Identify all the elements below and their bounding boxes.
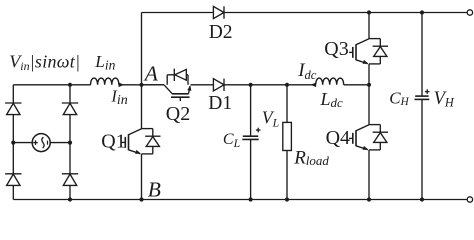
wire Ldc to Q leg — [344, 84, 369, 86]
wire bridge left leg lower — [12, 185, 14, 199]
node B — [139, 197, 143, 201]
svg-text:Vin|sinωt|: Vin|sinωt| — [9, 51, 80, 73]
wire CH upper — [421, 13, 423, 97]
svg-text:Rload: Rload — [293, 148, 329, 169]
wire D1 to Ldc — [224, 84, 316, 86]
wire Q2 to D1 — [191, 84, 214, 86]
wire bridge right leg lower — [69, 185, 71, 199]
wire bridge right leg upper — [69, 85, 71, 103]
node Rload top junction — [285, 83, 289, 87]
svg-text:Q2: Q2 — [166, 103, 190, 125]
node CL bottom junction — [249, 197, 253, 201]
svg-text:Q1: Q1 — [101, 131, 125, 153]
transistor Q4 — [356, 125, 369, 131]
diode D2 — [223, 6, 225, 18]
current arrow Idc — [311, 83, 317, 88]
wire top of bridge — [13, 84, 90, 86]
svg-text:VL: VL — [262, 107, 279, 129]
transistor Q2 — [164, 85, 172, 94]
wire node A up to top rail — [141, 13, 143, 85]
svg-text:A: A — [143, 61, 159, 85]
node bridge bottom-right junction — [68, 197, 72, 201]
wire bridge left leg upper — [12, 85, 14, 103]
node CH bottom junction — [420, 197, 424, 201]
wire AC source left — [13, 142, 32, 144]
svg-text:Q4: Q4 — [326, 127, 350, 149]
capacitor CH — [415, 95, 428, 97]
wire Lin to node A — [119, 84, 164, 86]
node Rload bottom junction — [285, 197, 289, 201]
node bottom rail Q4 junction — [367, 197, 371, 201]
diode bridge lower-left — [5, 173, 21, 175]
svg-text:Ldc: Ldc — [320, 89, 344, 110]
terminal top right — [467, 10, 472, 15]
wire Rload upper — [286, 85, 288, 123]
node CL top junction — [249, 83, 253, 87]
wire CH lower — [421, 99, 423, 199]
svg-text:Idc: Idc — [297, 60, 317, 82]
wire Q3 to Q4 — [368, 64, 370, 125]
capacitor CL — [243, 135, 258, 137]
node AC left junction — [11, 141, 15, 145]
wire bridge right leg middle — [69, 115, 71, 174]
node bridge top-right junction — [68, 83, 72, 87]
transistor Q3 — [356, 39, 369, 45]
wire top rail to Q3 — [368, 13, 370, 39]
wire bridge left leg middle — [12, 115, 14, 174]
wire node A down to Q1 — [141, 85, 143, 129]
inductor Lin — [91, 78, 119, 85]
diode bridge lower-right — [62, 173, 78, 175]
svg-text:CL: CL — [223, 131, 240, 150]
node top rail CH junction — [420, 10, 424, 14]
wire node A to Q2 — [142, 84, 165, 86]
current arrow Iin — [119, 83, 125, 88]
wire Rload lower — [286, 151, 288, 200]
terminal bottom right — [467, 197, 472, 202]
svg-text:D2: D2 — [209, 22, 233, 43]
svg-text:VH: VH — [434, 89, 455, 109]
svg-text:D1: D1 — [208, 93, 232, 114]
wire Q4 to bottom rail — [368, 150, 370, 200]
svg-text:Lin: Lin — [94, 52, 115, 72]
wire top rail left — [142, 12, 214, 14]
svg-text:CH: CH — [389, 88, 409, 108]
wire Q1 to node B — [141, 154, 143, 200]
wire AC source right — [50, 142, 70, 144]
wire CL lower — [250, 139, 252, 199]
node A — [139, 83, 143, 87]
node top rail Q3 junction — [367, 10, 371, 14]
diode bridge upper-right — [62, 102, 78, 104]
diode bridge upper-left — [5, 102, 21, 104]
wire bottom rail — [13, 199, 467, 201]
resistor Rload — [283, 122, 292, 150]
AC source Vin — [32, 134, 50, 152]
diode D1 — [223, 79, 225, 91]
node Q leg middle junction — [367, 83, 371, 87]
wire top rail right — [224, 12, 467, 14]
svg-text:B: B — [148, 177, 161, 201]
inductor Ldc — [316, 78, 344, 85]
node AC right junction — [68, 141, 72, 145]
wire CL upper — [250, 85, 252, 136]
svg-text:Q3: Q3 — [324, 38, 348, 60]
svg-text:Iin: Iin — [110, 86, 127, 108]
transistor Q1 — [129, 129, 142, 135]
